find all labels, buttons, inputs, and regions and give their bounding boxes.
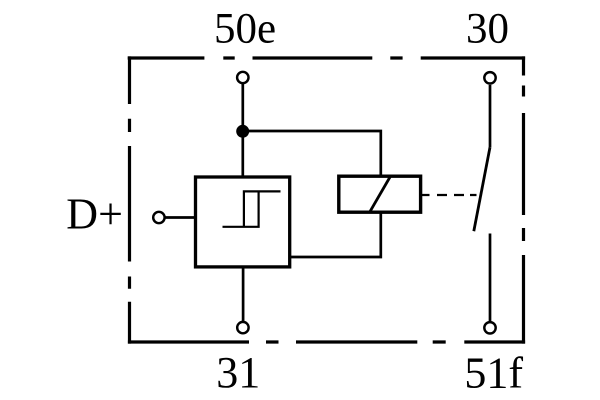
mechanical link (dashed) [422, 194, 477, 196]
svg-text:31: 31 [216, 348, 260, 397]
svg-text:D+: D+ [66, 189, 123, 238]
terminal 30 [484, 72, 495, 83]
hysteresis symbol [223, 191, 281, 226]
switch lever [474, 147, 490, 231]
svg-text:30: 30 [466, 6, 509, 53]
relay coil K1 [339, 176, 421, 212]
wire junction to coil top [243, 131, 381, 178]
enclosure dash-dot border: right side [522, 56, 525, 343]
wire 30 terminal stem [489, 85, 492, 147]
terminal 50e [237, 72, 248, 83]
enclosure dash-dot border: top side [128, 56, 525, 59]
wire control box to terminal 31 [242, 267, 245, 321]
wire fixed contact to terminal 51f [489, 234, 492, 322]
wire D+ terminal to control box [165, 216, 196, 219]
enclosure dash-dot border: left side [128, 56, 131, 343]
enclosure dash-dot border: bottom side [128, 340, 525, 343]
wire 50e stem down to control box [241, 84, 244, 178]
svg-text:51f: 51f [464, 349, 523, 398]
coil diagonal [370, 177, 390, 212]
control box U1 [196, 177, 290, 267]
svg-text:50e: 50e [214, 6, 276, 53]
wire control box to coil bottom [290, 211, 381, 257]
terminal D+ [153, 212, 164, 223]
terminal 51f [484, 322, 495, 333]
junction node [236, 125, 249, 138]
terminal 31 [237, 322, 248, 333]
